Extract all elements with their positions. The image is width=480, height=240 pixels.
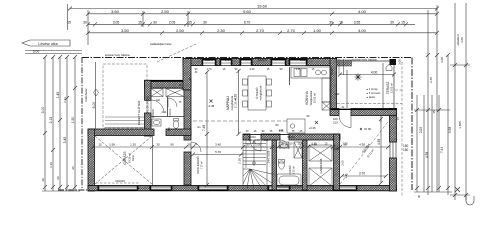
terrace outline: [338, 61, 395, 110]
bath fixtures: [277, 142, 302, 187]
svg-text:2.41: 2.41: [63, 97, 67, 103]
wall: left wing left: [145, 80, 152, 100]
svg-text:3.00: 3.00: [440, 57, 444, 63]
svg-text:240/210: 240/210: [115, 179, 125, 183]
window W5: [290, 59, 306, 65]
svg-text:2.05: 2.05: [279, 130, 284, 133]
door to szoba from terrace wall: [339, 116, 351, 128]
interior dim chain horizontal y147: [91, 145, 390, 149]
svg-text:12.02 m²: 12.02 m²: [390, 83, 394, 93]
interior wall: bath/garderob x302: [303, 140, 308, 190]
dimension chain top row0 overall 19.60: [68, 4, 440, 30]
svg-text:3.00: 3.00: [41, 107, 45, 114]
tiny texts below top wall: [195, 68, 315, 71]
svg-text:FEDETT ELŐTÉR: FEDETT ELŐTÉR: [136, 100, 141, 125]
svg-text:WC: WC: [168, 127, 171, 131]
window W2: [221, 59, 231, 65]
svg-text:90: 90: [170, 143, 174, 147]
svg-text:4.38: 4.38: [377, 139, 381, 145]
terrace eaves dashed: [337, 103, 402, 105]
svg-text:15: 15: [67, 20, 71, 24]
window S2: [199, 186, 227, 190]
window W1: [203, 59, 215, 65]
terrace level marker: [355, 74, 362, 81]
dining table and chairs: [243, 76, 272, 110]
svg-text:1.00: 1.00: [255, 143, 261, 147]
svg-text:7.37 m²: 7.37 m²: [201, 161, 204, 169]
svg-text:30: 30: [41, 178, 45, 182]
garage door opening: [99, 186, 137, 190]
svg-text:2.30: 2.30: [217, 28, 226, 33]
svg-text:30: 30: [329, 20, 333, 24]
wall: west connector: [183, 59, 191, 91]
svg-text:90/240: 90/240: [248, 136, 256, 139]
door arcs on y134 wall: [250, 140, 289, 151]
right top small texts: [330, 68, 400, 120]
svg-text:15: 15: [138, 20, 142, 24]
svg-text:KÖZLEKEDŐ: KÖZLEKEDŐ: [195, 156, 200, 174]
street name arrow banner top-left: [22, 40, 82, 54]
svg-text:4.88: 4.88: [334, 148, 339, 151]
dimension chain top row3: [86, 5, 439, 192]
terrace pillar: [390, 59, 397, 65]
svg-text:4.00: 4.00: [371, 71, 378, 75]
svg-text:G1: G1: [197, 125, 201, 129]
svg-text:19.60: 19.60: [257, 4, 268, 9]
terrace floor notes: [366, 88, 381, 99]
svg-text:19.35 m²: 19.35 m²: [128, 153, 132, 163]
svg-text:1 805: 1 805: [458, 121, 462, 129]
svg-text:1.10: 1.10: [287, 142, 293, 146]
svg-text:1.36: 1.36: [49, 162, 53, 168]
svg-text:Lövész utca: Lövész utca: [38, 42, 57, 46]
window W4: [272, 59, 285, 65]
svg-text:26: 26: [71, 166, 75, 170]
porch steps: [105, 117, 146, 128]
wall: bottom with openings: [88, 186, 397, 191]
svg-text:15: 15: [401, 20, 405, 24]
left dim line 6.00 with marker: [95, 62, 97, 130]
window S4: [334, 186, 356, 190]
beam G1 dashed: [193, 120, 287, 122]
svg-text:1.90: 1.90: [313, 28, 322, 33]
svg-text:210: 210: [333, 121, 338, 125]
terrace door frame lines: [339, 59, 344, 75]
szoba door jamb line: [380, 116, 382, 122]
svg-text:3.50: 3.50: [121, 28, 130, 33]
left wing partitions: [151, 97, 184, 117]
wall: garage top / left wing bottom: [88, 129, 154, 136]
svg-text:14×17.6/29: 14×17.6/29: [268, 150, 271, 163]
window S1: [151, 186, 171, 190]
svg-text:30: 30: [246, 143, 250, 147]
svg-text:9.60: 9.60: [243, 9, 252, 14]
interior wall: garderob/szoba x333: [334, 134, 340, 190]
svg-text:3.70: 3.70: [359, 172, 365, 176]
svg-text:1.70: 1.70: [207, 68, 212, 71]
svg-text:4.00: 4.00: [358, 9, 367, 14]
svg-text:1.45: 1.45: [296, 68, 301, 71]
svg-text:30: 30: [390, 20, 394, 24]
washer/dryer X boxes: [151, 89, 184, 129]
svg-text:90/240: 90/240: [287, 136, 295, 139]
svg-text:1.20: 1.20: [130, 143, 136, 147]
svg-text:7.44: 7.44: [440, 147, 444, 153]
garage door dashed line: [96, 182, 140, 184]
svg-text:±0.00: ±0.00: [364, 127, 371, 131]
svg-text:30: 30: [417, 194, 421, 198]
svg-text:ÉTKEZŐ: ÉTKEZŐ: [254, 87, 259, 99]
wall: main top with windows: [183, 59, 337, 66]
garage dashed X: [95, 136, 152, 184]
svg-text:3.00: 3.00: [460, 37, 464, 43]
svg-text:3.55: 3.55: [354, 20, 361, 24]
svg-text:30: 30: [203, 20, 207, 24]
tiny texts above corridor wall: [246, 130, 303, 133]
svg-text:-0.45: -0.45: [208, 104, 215, 108]
svg-text:2.05: 2.05: [169, 20, 176, 24]
dimension chain top row2: [86, 22, 415, 26]
svg-text:3.45: 3.45: [63, 137, 67, 144]
svg-text:építési hely határa: építési hely határa: [105, 53, 130, 57]
svg-text:15: 15: [98, 143, 102, 147]
svg-text:3.05: 3.05: [113, 20, 120, 24]
svg-text:5.00: 5.00: [33, 50, 40, 54]
bottom right X marker: [455, 187, 460, 192]
svg-text:▲ 5 cm beton: ▲ 5 cm beton: [366, 92, 381, 95]
interior vertical dim x210: [205, 70, 209, 187]
svg-text:2.70: 2.70: [256, 28, 265, 33]
svg-text:3.40: 3.40: [215, 143, 221, 147]
svg-text:30: 30: [156, 143, 160, 147]
svg-text:padlásfeljáró helye: padlásfeljáró helye: [150, 42, 172, 46]
wall: kitchen east: [330, 59, 337, 109]
svg-text:8.70: 8.70: [244, 20, 251, 24]
svg-text:telekhatár: telekhatár: [84, 88, 88, 101]
door arc hall: [191, 142, 201, 152]
terrace dim 4.00: [338, 63, 396, 108]
left dimension block vertical lines: [42, 55, 80, 191]
dimension chain top row1: [86, 10, 439, 45]
window E1: [390, 142, 396, 158]
svg-text:+0.45: +0.45: [308, 126, 316, 130]
terrace house icon: [386, 65, 392, 71]
szoba dims: [340, 117, 388, 185]
svg-text:NAPPALI: NAPPALI: [226, 96, 230, 110]
terrace parapet stub: [337, 60, 352, 66]
svg-text:±0.90: ±0.90: [330, 68, 334, 75]
svg-text:15: 15: [188, 20, 192, 24]
svg-text:240: 240: [225, 58, 230, 62]
svg-text:30: 30: [83, 20, 87, 24]
svg-text:2.38: 2.38: [238, 158, 242, 164]
szoba diagonal label: [340, 114, 394, 184]
interior vertical dim x238: [237, 69, 241, 136]
svg-text:9.58: 9.58: [448, 127, 452, 133]
wall: left wing top: [145, 80, 192, 88]
right dimension block: [414, 3, 470, 200]
left wing tiny labels: [152, 108, 172, 118]
door/window jambs: [202, 59, 204, 65]
interior wall: stairs/bath x272: [272, 140, 277, 190]
svg-text:1.45: 1.45: [56, 92, 60, 99]
svg-text:6.30 m²: 6.30 m²: [293, 166, 296, 174]
tiny dim texts row above interior chain: [195, 114, 349, 146]
svg-text:5.70: 5.70: [215, 150, 221, 154]
svg-text:KONYHA: KONYHA: [305, 90, 309, 104]
svg-text:1.35: 1.35: [345, 173, 348, 178]
svg-text:2.65: 2.65: [429, 77, 433, 83]
svg-text:2.50: 2.50: [176, 28, 185, 33]
svg-text:2.04: 2.04: [162, 111, 167, 114]
second chain y154.5 nappali width: [191, 153, 243, 157]
svg-text:beton: beton: [132, 154, 135, 160]
svg-text:150: 150: [403, 148, 409, 152]
kitchen partition: [289, 67, 291, 85]
svg-text:2.40: 2.40: [335, 93, 340, 96]
svg-text:7.48: 7.48: [202, 125, 206, 131]
svg-text:1.30: 1.30: [342, 142, 348, 146]
bottom right U glyph: [466, 196, 474, 205]
svg-text:GARÁZS: GARÁZS: [123, 151, 127, 164]
svg-text:1.00: 1.00: [263, 138, 269, 142]
svg-text:30: 30: [153, 20, 157, 24]
svg-text:2.50: 2.50: [161, 9, 170, 14]
svg-text:150/240: 150/240: [258, 58, 268, 62]
svg-text:2.05: 2.05: [419, 127, 423, 133]
entrance door arc: [151, 100, 164, 113]
svg-text:▲ kavics: ▲ kavics: [366, 96, 376, 99]
svg-text:▲ 2 cm lap: ▲ 2 cm lap: [366, 88, 378, 91]
svg-text:90/240: 90/240: [205, 58, 213, 62]
svg-text:1.35: 1.35: [311, 142, 317, 146]
tiny lintel texts near doors: [179, 71, 345, 151]
svg-text:2.70: 2.70: [287, 28, 296, 33]
svg-text:2.15: 2.15: [49, 117, 53, 124]
svg-text:4.38: 4.38: [425, 152, 429, 158]
wall: interior spine x=184: [184, 90, 191, 140]
interior wall: lower rooms top y134: [243, 134, 250, 140]
garderob wardrobes X: [309, 145, 332, 186]
svg-text:MOSÓKONYHA: MOSÓKONYHA: [147, 96, 150, 114]
svg-text:10.02 m²: 10.02 m²: [313, 93, 317, 103]
svg-text:2.05: 2.05: [341, 160, 345, 166]
svg-text:TERASZ: TERASZ: [386, 82, 390, 95]
window W3: [241, 59, 251, 65]
svg-text:2.40: 2.40: [250, 68, 255, 71]
window S3: [269, 186, 289, 190]
svg-text:4.38: 4.38: [359, 143, 365, 147]
svg-text:4.00: 4.00: [358, 28, 367, 33]
wall: garage left: [88, 129, 95, 191]
svg-text:3.00: 3.00: [398, 59, 402, 65]
svg-text:MÓSOK.: MÓSOK.: [152, 108, 155, 118]
covered porch dashed roof outline: [103, 64, 147, 128]
wall: right side: [390, 109, 397, 143]
stairs: [243, 140, 272, 190]
svg-text:1.50: 1.50: [71, 117, 75, 124]
svg-text:15: 15: [432, 110, 436, 114]
eaves dashed right: [395, 62, 402, 196]
wall: back wing top (south of terrace): [351, 109, 397, 116]
svg-text:26: 26: [56, 176, 60, 180]
svg-text:4.20: 4.20: [234, 94, 238, 100]
kitchen counters: [287, 67, 331, 133]
svg-text:30: 30: [187, 143, 191, 147]
svg-text:3.50: 3.50: [111, 9, 120, 14]
lintel tiny labels above top wall: [205, 58, 308, 62]
svg-text:1.90: 1.90: [109, 143, 115, 147]
svg-text:2.04 m²: 2.04 m²: [169, 109, 172, 117]
building site boundary dash-dot top: [82, 58, 412, 191]
svg-text:15: 15: [339, 20, 343, 24]
svg-text:6.00: 6.00: [92, 102, 96, 109]
svg-text:melegburkolat: melegburkolat: [260, 85, 263, 100]
property line left (dash-dot vertical): [58, 57, 88, 190]
